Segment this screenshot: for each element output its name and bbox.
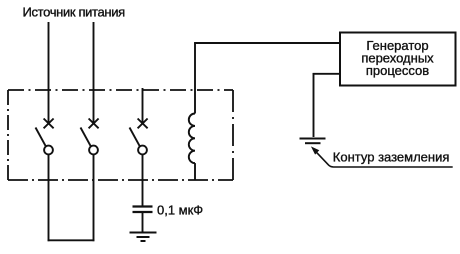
wire: top horizontal from inductor to generator box bbox=[194, 42, 340, 44]
wire: supply line 2 (upper segment) bbox=[93, 22, 95, 123]
inductor L1 humps bbox=[189, 114, 195, 164]
EUT boundary dash-dot box: top edge bbox=[8, 89, 233, 91]
wire: capacitor to ground bbox=[142, 213, 144, 232]
svg-text:Контур заземления: Контур заземления bbox=[333, 150, 450, 165]
wire: generator ground lead horizontal bbox=[313, 73, 340, 75]
inductor L1 (coupling coil) lead from top wire bbox=[194, 42, 196, 113]
switch S1 blade bbox=[36, 128, 46, 147]
switch S2 blade bbox=[81, 128, 91, 147]
switch S3 blade bbox=[130, 128, 140, 147]
leader arrowhead bbox=[312, 147, 319, 154]
EUT boundary dash-dot box: left edge bbox=[7, 90, 9, 180]
svg-text:процессов: процессов bbox=[366, 63, 429, 78]
capacitor C1 plates bbox=[133, 207, 153, 213]
wire: supply line 1 (upper segment) bbox=[48, 22, 50, 123]
switch S1 contact cross (X) bbox=[44, 119, 54, 129]
ground (generator reference) bbox=[300, 139, 326, 144]
switch S2 hinge circle bbox=[89, 146, 98, 155]
EUT boundary dash-dot box: bottom edge bbox=[8, 179, 233, 181]
switch S3 contact cross (X) bbox=[138, 119, 148, 129]
switch S2 contact cross (X) bbox=[89, 119, 99, 129]
switch S1 hinge circle bbox=[44, 146, 53, 155]
EUT boundary dash-dot box: right edge bbox=[232, 90, 234, 180]
wire: line 3 (upper segment from box top) bbox=[142, 88, 144, 123]
wire: line 3 (lower segment to capacitor) bbox=[142, 155, 144, 207]
leader arrow to ground loop bbox=[315, 151, 453, 167]
wire: bottom return connector between line 1 and line 2 bbox=[48, 239, 95, 241]
ground (below capacitor) bbox=[130, 233, 157, 242]
wire: generator ground lead vertical bbox=[313, 73, 315, 137]
svg-text:Источник питания: Источник питания bbox=[23, 4, 126, 19]
generator box bbox=[340, 33, 456, 86]
svg-text:0,1 мкФ: 0,1 мкФ bbox=[157, 203, 203, 218]
inductor L1 lead to box bottom bbox=[194, 163, 196, 180]
wire: supply line 1 (lower segment) bbox=[48, 155, 50, 242]
wire: supply line 2 (lower segment) bbox=[93, 155, 95, 242]
switch S3 hinge circle bbox=[138, 146, 147, 155]
